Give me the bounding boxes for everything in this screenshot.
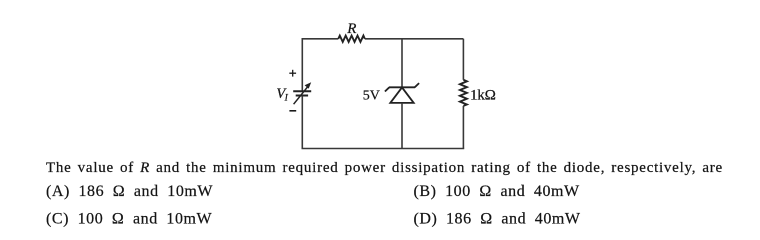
plus sign [289,70,296,77]
svg-text:The value of R and the minimum: The value of R and the minimum required … [46,160,723,176]
svg-text:(D) 186 Ω and 40mW: (D) 186 Ω and 40mW [414,210,581,227]
arrowhead of source arrow [305,82,312,88]
zener diode D [385,83,419,103]
svg-text:(C) 100 Ω and 10mW: (C) 100 Ω and 10mW [46,210,213,227]
wire: right top [462,39,464,80]
wire: right bottom [462,106,464,149]
svg-text:(A) 186 Ω and 10mW: (A) 186 Ω and 10mW [46,183,213,200]
wire: left bottom segment [301,96,303,149]
svg-text:(B) 100 Ω and 40mW: (B) 100 Ω and 40mW [414,183,581,200]
wire: zener top [401,39,403,88]
wire: bottom [302,148,465,150]
source V_I (battery with arrow) [293,86,311,104]
wire: top left segment [302,39,338,91]
wire: top right segment [365,38,464,40]
svg-text:V: V [370,88,380,103]
svg-text:I: I [284,94,289,104]
resistor 1k [460,80,467,106]
svg-text:5: 5 [363,88,370,103]
svg-text:1kΩ: 1kΩ [470,87,496,104]
svg-text:R: R [346,21,356,37]
resistor R [338,36,365,42]
minus sign [289,110,296,112]
wire: zener bottom [401,103,403,149]
